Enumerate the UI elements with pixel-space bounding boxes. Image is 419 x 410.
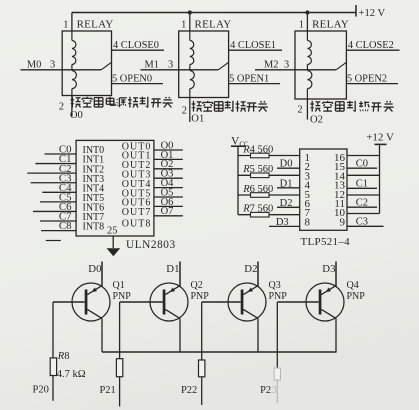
svg-text:Q4: Q4 bbox=[347, 280, 359, 291]
svg-text:D1: D1 bbox=[280, 178, 293, 189]
svg-text:C2: C2 bbox=[356, 198, 368, 209]
svg-text:RELAY: RELAY bbox=[77, 18, 114, 30]
svg-text:4 CLOSE1: 4 CLOSE1 bbox=[230, 40, 276, 51]
svg-text:25: 25 bbox=[107, 225, 118, 236]
svg-text:P22: P22 bbox=[181, 385, 197, 396]
svg-text:4 CLOSE2: 4 CLOSE2 bbox=[348, 40, 394, 51]
svg-text:ULN2803: ULN2803 bbox=[126, 239, 176, 251]
svg-text:1: 1 bbox=[181, 19, 186, 30]
svg-text:2: 2 bbox=[297, 105, 302, 116]
svg-text:C0: C0 bbox=[356, 159, 368, 170]
svg-text:Q3: Q3 bbox=[269, 280, 281, 291]
svg-text:D0: D0 bbox=[280, 159, 293, 170]
svg-text:R5 560: R5 560 bbox=[242, 164, 273, 175]
svg-text:4.7 kΩ: 4.7 kΩ bbox=[57, 369, 86, 380]
svg-text:OUT8: OUT8 bbox=[122, 219, 152, 230]
svg-text:5 OPEN0: 5 OPEN0 bbox=[112, 73, 152, 84]
svg-text:8: 8 bbox=[305, 216, 311, 228]
svg-text:O7: O7 bbox=[161, 206, 174, 217]
svg-text:RELAY: RELAY bbox=[195, 18, 232, 30]
svg-text:5 OPEN1: 5 OPEN1 bbox=[229, 73, 269, 84]
svg-text:3: 3 bbox=[284, 60, 289, 71]
svg-text:1: 1 bbox=[299, 19, 304, 30]
svg-text:Q1: Q1 bbox=[113, 280, 125, 291]
svg-text:1: 1 bbox=[63, 19, 68, 30]
svg-text:C8: C8 bbox=[59, 220, 72, 232]
svg-text:C1: C1 bbox=[356, 179, 368, 190]
svg-text:3: 3 bbox=[50, 60, 55, 71]
svg-text:2: 2 bbox=[59, 102, 64, 113]
svg-text:D2: D2 bbox=[280, 198, 293, 209]
svg-text:Q2: Q2 bbox=[191, 280, 203, 291]
svg-text:P21: P21 bbox=[99, 385, 115, 396]
svg-text:9: 9 bbox=[340, 216, 346, 228]
svg-text:O0: O0 bbox=[70, 110, 83, 121]
svg-text:O1: O1 bbox=[191, 114, 204, 125]
svg-text:P2: P2 bbox=[260, 385, 271, 396]
svg-text:2: 2 bbox=[182, 106, 187, 117]
svg-text:D3: D3 bbox=[322, 263, 335, 275]
svg-text:D0: D0 bbox=[88, 263, 101, 275]
svg-text:RELAY: RELAY bbox=[312, 18, 349, 30]
svg-text:D2: D2 bbox=[244, 263, 257, 275]
svg-text:PNP: PNP bbox=[347, 291, 366, 302]
svg-text:+12 V: +12 V bbox=[359, 8, 386, 19]
svg-text:D3: D3 bbox=[276, 217, 289, 228]
svg-text:PNP: PNP bbox=[191, 291, 210, 302]
svg-text:INT8: INT8 bbox=[83, 222, 105, 233]
svg-text:PNP: PNP bbox=[269, 291, 288, 302]
svg-text:3: 3 bbox=[168, 60, 173, 71]
svg-text:O2: O2 bbox=[310, 115, 323, 126]
svg-text:4 CLOSE0: 4 CLOSE0 bbox=[113, 40, 159, 51]
svg-text:PNP: PNP bbox=[113, 291, 132, 302]
svg-text:R7 560: R7 560 bbox=[242, 204, 273, 215]
svg-text:5 OPEN2: 5 OPEN2 bbox=[347, 73, 387, 84]
svg-text:R8: R8 bbox=[57, 351, 70, 362]
svg-text:M0: M0 bbox=[27, 60, 41, 71]
svg-text:D1: D1 bbox=[166, 263, 179, 275]
svg-text:3: 3 bbox=[272, 385, 277, 396]
svg-text:P20: P20 bbox=[33, 384, 49, 395]
svg-text:M2: M2 bbox=[264, 60, 278, 71]
svg-text:TLP521–4: TLP521–4 bbox=[301, 236, 351, 248]
svg-text:+12 V: +12 V bbox=[366, 131, 394, 143]
svg-text:M1: M1 bbox=[145, 60, 159, 71]
svg-text:C3: C3 bbox=[356, 217, 368, 228]
svg-text:OUT7: OUT7 bbox=[122, 207, 152, 218]
svg-text:R6 560: R6 560 bbox=[242, 184, 273, 195]
